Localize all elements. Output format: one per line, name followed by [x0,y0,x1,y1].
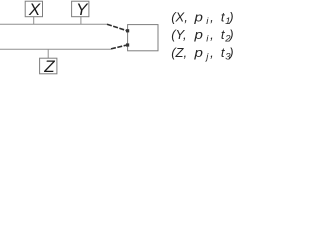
svg-text:Y: Y [76,0,89,19]
buffer box (right) [128,25,158,51]
dashed link top wire to buffer [107,24,127,30]
box Z [40,57,57,76]
svg-text:Z: Z [43,57,55,75]
wire stub from box Y [80,17,82,25]
node dot lower [126,43,129,46]
box Y [72,0,89,19]
dashed link bottom wire to buffer [111,45,127,49]
node dot upper [126,29,129,32]
svg-text:(Z,pj,t3): (Z,pj,t3) [171,45,233,63]
wire stub from box X [33,17,35,25]
svg-text:(Y,pi,t2): (Y,pi,t2) [171,27,233,45]
svg-text:X: X [28,0,41,19]
wire bottom horizontal [0,48,111,50]
box X [25,0,42,19]
wire stub to box Z [47,49,49,58]
svg-text:(X,pi,t1): (X,pi,t1) [171,9,233,27]
wire top horizontal [0,23,107,25]
